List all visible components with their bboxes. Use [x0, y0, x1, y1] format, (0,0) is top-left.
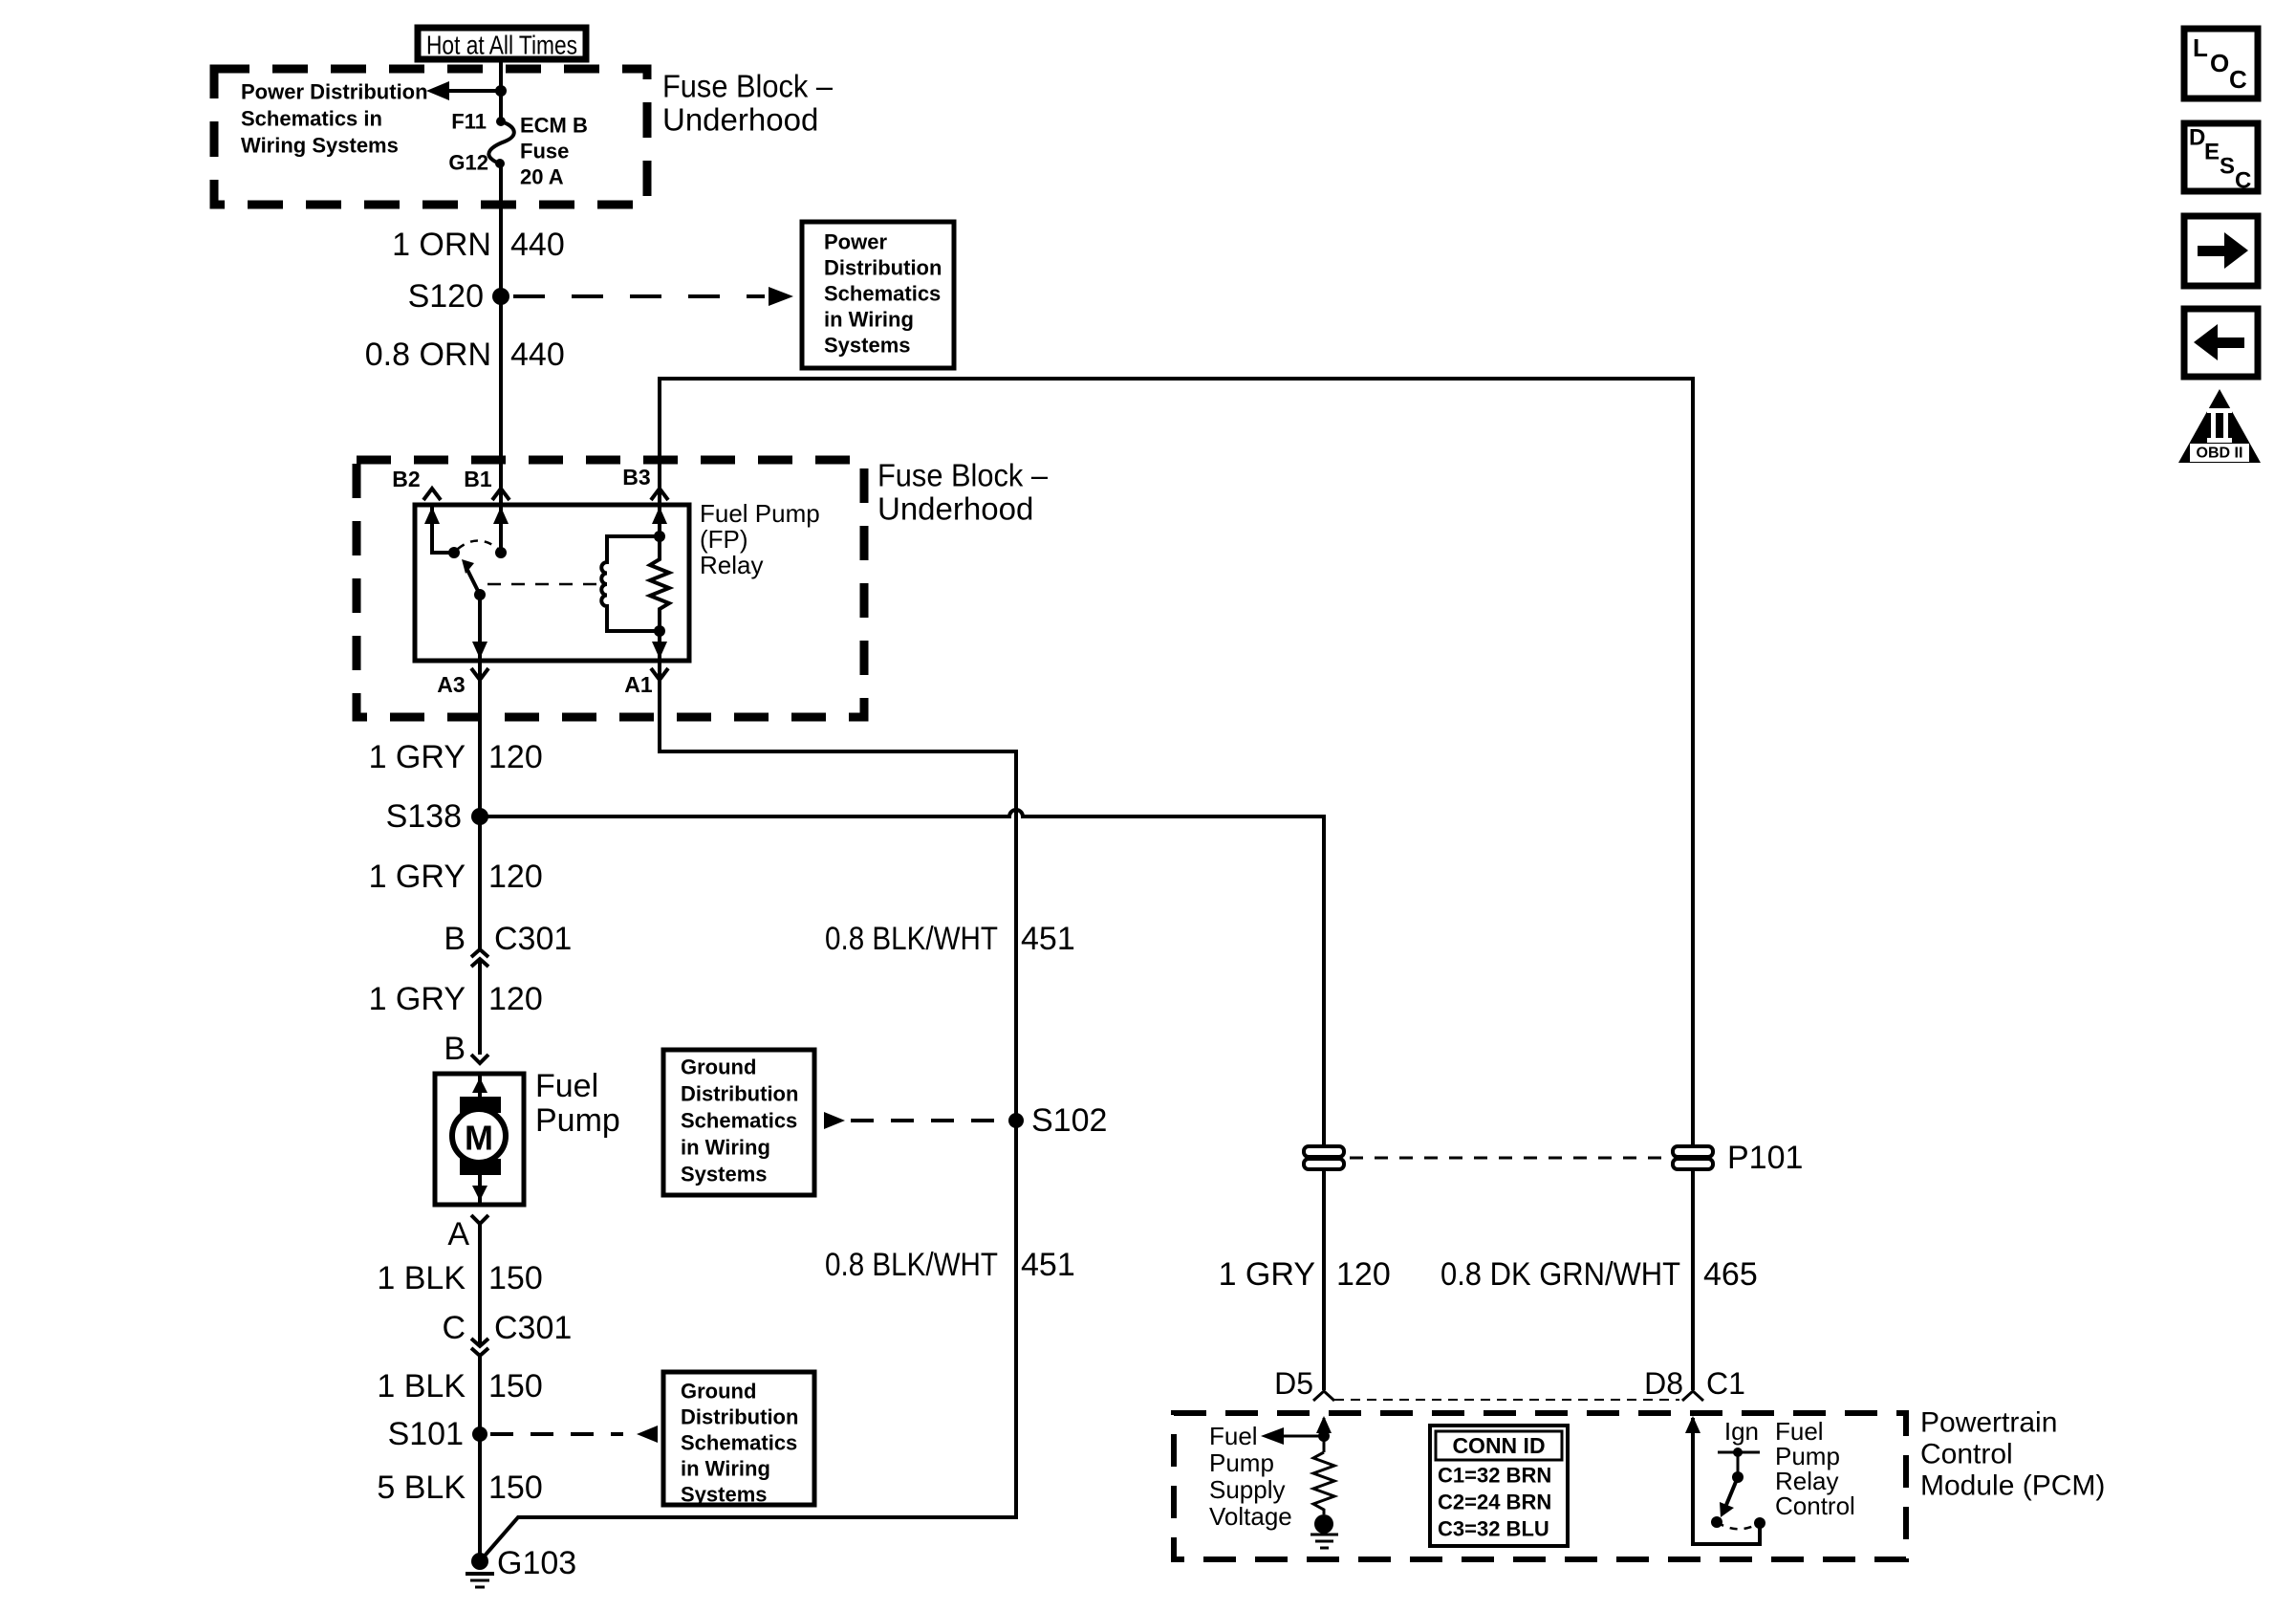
- svg-text:1 BLK: 1 BLK: [377, 1260, 466, 1296]
- svg-text:Systems: Systems: [681, 1163, 768, 1186]
- wire from relay B3 up, across top, down to PCM C1: [660, 379, 1693, 1390]
- svg-text:B3: B3: [622, 465, 650, 490]
- wire label 0.8 BLK/WHT 451 (lower): [825, 1247, 1075, 1283]
- relay A1 internal lead: [652, 625, 667, 661]
- svg-text:Distribution: Distribution: [681, 1082, 798, 1106]
- PCM title Powertrain Control Module (PCM): [1920, 1407, 2105, 1502]
- ground distribution reference box (S101): [663, 1372, 814, 1507]
- relay pin chevron B2: [423, 489, 441, 500]
- svg-text:120: 120: [488, 981, 543, 1017]
- svg-text:Systems: Systems: [681, 1483, 768, 1507]
- PCM label fuel pump relay control: [1775, 1417, 1855, 1520]
- fuse ECM B label: [520, 114, 588, 189]
- fuse ECM B 20A element (S-curve): [488, 117, 513, 168]
- node junction dot at arrow takeoff: [495, 85, 507, 97]
- PCM internal ground: [1310, 1514, 1338, 1548]
- svg-text:S120: S120: [408, 278, 484, 315]
- svg-text:Fuel: Fuel: [1209, 1422, 1258, 1450]
- svg-text:Powertrain: Powertrain: [1920, 1407, 2057, 1439]
- svg-text:Power Distribution: Power Distribution: [241, 80, 428, 104]
- relay coil actuation dashed link: [487, 583, 598, 586]
- svg-text:Underhood: Underhood: [662, 102, 818, 138]
- dashed reference arrow from S120 to power distribution box: [513, 287, 793, 306]
- svg-text:150: 150: [488, 1469, 543, 1506]
- power distribution reference box (right of S120): [802, 222, 954, 368]
- wire below C301 C to G103: [478, 1356, 482, 1561]
- svg-text:440: 440: [510, 227, 565, 263]
- PCM connector face thin dashed line: [1334, 1399, 1679, 1401]
- svg-text:Supply: Supply: [1209, 1475, 1286, 1504]
- svg-text:G103: G103: [497, 1545, 576, 1581]
- svg-text:1 GRY: 1 GRY: [369, 981, 466, 1017]
- svg-text:A: A: [447, 1216, 469, 1252]
- dashed reference arrow from S101 to ground distribution box: [490, 1426, 658, 1443]
- svg-text:B2: B2: [392, 467, 420, 491]
- inline connector P101 (right, C1 wire): [1673, 1140, 1803, 1176]
- relay contact travel dashed arc: [458, 541, 498, 550]
- svg-text:Control: Control: [1775, 1491, 1855, 1520]
- fuse block underhood title (relay): [877, 458, 1049, 527]
- svg-text:Ground: Ground: [681, 1380, 756, 1404]
- inline connector P101 (left, D5 wire): [1304, 1146, 1344, 1169]
- icon DESC box: [2184, 123, 2258, 194]
- svg-text:Schematics: Schematics: [681, 1109, 797, 1133]
- svg-text:in Wiring: in Wiring: [681, 1457, 770, 1481]
- connector C301 chevrons (upper): [471, 949, 488, 967]
- PCM fuel pump relay control switch arm: [1711, 1477, 1765, 1529]
- wire label 1 GRY 120 (below relay): [369, 739, 543, 775]
- relay B2 internal arm: [424, 505, 460, 558]
- svg-text:Systems: Systems: [824, 334, 911, 358]
- CONN ID table: [1430, 1426, 1568, 1546]
- svg-text:1 BLK: 1 BLK: [377, 1368, 466, 1404]
- PCM dashed box: [1174, 1413, 1906, 1559]
- svg-text:Distribution: Distribution: [681, 1405, 798, 1429]
- svg-text:20 A: 20 A: [520, 165, 564, 189]
- svg-text:P101: P101: [1727, 1140, 1803, 1176]
- fuel pump pin A chevron: [471, 1215, 488, 1224]
- svg-text:O: O: [2210, 49, 2229, 77]
- wire label 1 BLK 150 (below pump): [377, 1260, 542, 1296]
- svg-text:A3: A3: [437, 672, 465, 697]
- svg-text:Fuel: Fuel: [535, 1068, 598, 1104]
- svg-text:A1: A1: [624, 672, 653, 697]
- fuel pump motor: [435, 1074, 524, 1205]
- icon forward arrow box: [2184, 216, 2258, 286]
- svg-text:D: D: [2189, 125, 2205, 151]
- connector C301 pin B label: [444, 921, 572, 957]
- svg-text:Distribution: Distribution: [824, 256, 942, 280]
- svg-text:Fuse: Fuse: [520, 140, 569, 163]
- icon back arrow box: [2184, 309, 2258, 377]
- svg-text:1 ORN: 1 ORN: [392, 227, 491, 263]
- PCM C1 entry lead with up arrow and switch return: [1685, 1416, 1760, 1544]
- svg-text:451: 451: [1021, 1247, 1075, 1283]
- svg-text:Ign: Ign: [1724, 1417, 1759, 1446]
- fuse block underhood top dashed box: [214, 69, 647, 205]
- wire hot feed from Hot at All Times box down to fuse F11: [499, 59, 503, 118]
- relay annotation Fuel Pump (FP) Relay: [700, 499, 820, 579]
- svg-text:C: C: [442, 1310, 466, 1346]
- svg-text:OBD II: OBD II: [2197, 446, 2243, 462]
- svg-text:M: M: [465, 1119, 493, 1158]
- svg-text:1 GRY: 1 GRY: [369, 739, 466, 775]
- svg-text:G12: G12: [448, 151, 488, 175]
- svg-text:B1: B1: [464, 467, 492, 491]
- svg-text:0.8 ORN: 0.8 ORN: [365, 337, 491, 373]
- relay switch arm with arrowhead: [462, 559, 486, 600]
- svg-text:C301: C301: [494, 1310, 572, 1346]
- svg-text:Underhood: Underhood: [877, 491, 1033, 527]
- wire label 0.8 BLK/WHT 451 (upper): [825, 921, 1075, 957]
- relay B1 internal arm: [493, 505, 509, 558]
- svg-text:S: S: [2220, 154, 2235, 180]
- svg-text:ECM B: ECM B: [520, 114, 588, 138]
- splice node S120: [408, 278, 509, 315]
- svg-text:Hot at All Times: Hot at All Times: [426, 31, 577, 60]
- svg-text:451: 451: [1021, 921, 1075, 957]
- svg-text:S102: S102: [1031, 1102, 1107, 1139]
- dashed reference arrow from ground distribution box to S102: [824, 1112, 1005, 1129]
- splice node S101: [388, 1416, 487, 1452]
- relay pin chevron B1: [492, 489, 509, 500]
- relay pin chevron A3: [471, 668, 488, 680]
- svg-text:in Wiring: in Wiring: [681, 1136, 770, 1160]
- wire label 1 GRY 120 (below S138): [369, 859, 543, 895]
- svg-text:Schematics in: Schematics in: [241, 107, 382, 131]
- wire A3 down from relay (upper segment to C301 B): [478, 661, 482, 949]
- svg-text:C2=24 BRN: C2=24 BRN: [1438, 1491, 1551, 1514]
- svg-text:Schematics: Schematics: [824, 282, 941, 306]
- svg-text:465: 465: [1703, 1256, 1758, 1293]
- wire G12 down through fuse block to relay pin B1: [499, 163, 503, 505]
- svg-text:Fuse Block –: Fuse Block –: [662, 69, 834, 104]
- svg-text:150: 150: [488, 1368, 543, 1404]
- fuse block underhood dashed box (relay): [357, 460, 864, 717]
- svg-text:Pump: Pump: [1209, 1448, 1274, 1477]
- PCM fuel pump supply voltage arrow: [1261, 1427, 1330, 1445]
- svg-text:S101: S101: [388, 1416, 464, 1452]
- svg-text:C3=32 BLU: C3=32 BLU: [1438, 1517, 1549, 1541]
- svg-text:C1: C1: [1706, 1366, 1745, 1401]
- svg-text:Voltage: Voltage: [1209, 1502, 1292, 1531]
- svg-text:D5: D5: [1274, 1366, 1313, 1401]
- wire label 1 GRY 120 (PCM D5): [1219, 1256, 1391, 1293]
- svg-text:120: 120: [488, 739, 543, 775]
- svg-text:Module (PCM): Module (PCM): [1920, 1470, 2105, 1502]
- svg-text:Control: Control: [1920, 1439, 2013, 1470]
- svg-text:Fuel Pump: Fuel Pump: [700, 499, 820, 528]
- svg-text:D8: D8: [1644, 1366, 1683, 1401]
- splice node S102: [1008, 1102, 1107, 1139]
- svg-text:B: B: [444, 1031, 466, 1067]
- relay coil: [601, 536, 660, 631]
- svg-text:Power: Power: [824, 230, 887, 254]
- svg-text:C1=32 BRN: C1=32 BRN: [1438, 1464, 1551, 1488]
- svg-text:(FP): (FP): [700, 525, 748, 554]
- svg-text:E: E: [2204, 140, 2220, 165]
- fuel pump pin B chevron: [471, 1055, 488, 1063]
- relay pin chevron A1: [651, 668, 668, 680]
- connector C301 pin C label: [442, 1310, 572, 1346]
- power distribution reference text (top-left): [241, 80, 428, 158]
- svg-text:B: B: [444, 921, 466, 957]
- wire A1 down and across to BLK/WHT 451 drop, down to ground run: [480, 661, 1016, 1561]
- svg-text:C: C: [2229, 65, 2247, 94]
- svg-text:CONN ID: CONN ID: [1452, 1433, 1545, 1458]
- Hot at All Times box: [418, 28, 586, 60]
- PCM pin chevron C1: [1682, 1391, 1703, 1401]
- fuel pump label: [535, 1068, 620, 1139]
- icon LOC box: [2184, 29, 2258, 98]
- P101 dashed link: [1350, 1157, 1667, 1160]
- svg-text:150: 150: [488, 1260, 543, 1296]
- wire arrow to power distribution (left): [426, 81, 499, 100]
- PCM Ign fixed contact: [1718, 1417, 1760, 1483]
- svg-text:Fuse Block –: Fuse Block –: [877, 458, 1049, 493]
- connector C301 chevrons (lower): [471, 1339, 488, 1356]
- wire label 0.8 DK GRN/WHT 465: [1440, 1256, 1758, 1293]
- svg-text:Ground: Ground: [681, 1056, 756, 1079]
- splice node S138: [386, 798, 488, 835]
- svg-text:0.8 DK GRN/WHT: 0.8 DK GRN/WHT: [1440, 1256, 1680, 1293]
- svg-text:0.8 BLK/WHT: 0.8 BLK/WHT: [825, 1247, 998, 1283]
- wire S138 across (with hop) and down to PCM D5: [480, 810, 1324, 1390]
- wire label 1 ORN 440: [392, 227, 565, 263]
- svg-text:C: C: [2235, 168, 2251, 194]
- fuse block underhood title (top): [662, 69, 834, 138]
- PCM label fuel pump supply voltage: [1209, 1422, 1292, 1531]
- svg-text:Pump: Pump: [535, 1102, 620, 1139]
- PCM sense resistor: [1313, 1452, 1334, 1514]
- fuel pump relay box: [415, 505, 689, 661]
- svg-text:in Wiring: in Wiring: [824, 308, 914, 332]
- wire label 1 GRY 120 (above pump): [369, 981, 543, 1017]
- svg-text:0.8 BLK/WHT: 0.8 BLK/WHT: [825, 921, 998, 957]
- wire pump A down to C301 C: [478, 1224, 482, 1346]
- wire below C301 B to fuel pump: [478, 959, 482, 1055]
- svg-text:L: L: [2193, 33, 2208, 62]
- relay pin chevron B3: [651, 489, 668, 500]
- ground distribution reference box (S102): [663, 1050, 814, 1195]
- wire label 1 BLK 150 (below C301): [377, 1368, 542, 1404]
- wire label 0.8 ORN 440: [365, 337, 565, 373]
- relay B3 internal lead: [652, 505, 667, 542]
- ground G103: [466, 1545, 576, 1587]
- svg-text:5 BLK: 5 BLK: [377, 1469, 466, 1506]
- relay coil resistor: [650, 536, 669, 631]
- relay switch to A3 internal lead: [472, 595, 487, 661]
- svg-text:120: 120: [1336, 1256, 1391, 1293]
- icon OBD II triangle: [2178, 389, 2261, 463]
- svg-text:1 GRY: 1 GRY: [1219, 1256, 1315, 1293]
- PCM D5 entry lead with up arrow: [1316, 1416, 1332, 1452]
- PCM pin chevron D5: [1313, 1391, 1334, 1401]
- svg-text:F11: F11: [451, 110, 487, 134]
- svg-text:C301: C301: [494, 921, 572, 957]
- wire label 5 BLK 150: [377, 1469, 542, 1506]
- svg-text:120: 120: [488, 859, 543, 895]
- svg-text:440: 440: [510, 337, 565, 373]
- svg-text:Relay: Relay: [700, 551, 763, 579]
- svg-text:Wiring Systems: Wiring Systems: [241, 134, 399, 158]
- svg-text:S138: S138: [386, 798, 462, 835]
- svg-text:1 GRY: 1 GRY: [369, 859, 466, 895]
- svg-text:Schematics: Schematics: [681, 1431, 797, 1455]
